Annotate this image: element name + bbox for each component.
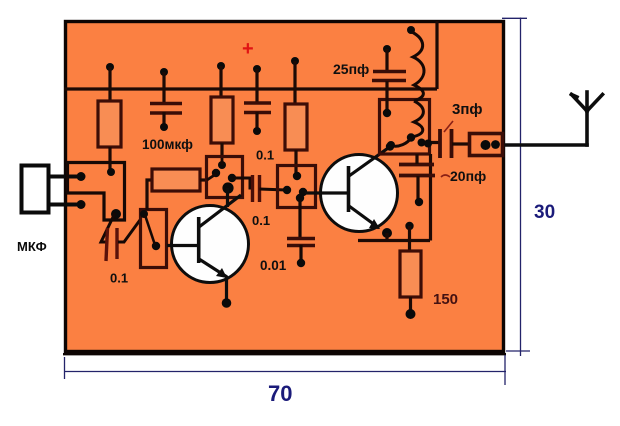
node dot below Q1 <box>222 298 232 308</box>
PCB board <box>66 22 504 352</box>
wire <box>255 112 258 130</box>
wire <box>408 226 411 251</box>
dimension line 70 (bottom) <box>64 355 506 385</box>
node dot B0 bottom <box>152 242 160 250</box>
Q2 collector lead <box>349 146 391 176</box>
capacitor C1 100mkf <box>150 104 182 114</box>
node B1 pad 2 <box>212 169 220 177</box>
wire <box>299 245 302 262</box>
node below C5 <box>383 109 391 117</box>
Q2 emitter lead <box>349 206 379 228</box>
box B0 <box>141 210 167 268</box>
node top of coil L1 <box>407 26 415 34</box>
antenna <box>503 92 603 145</box>
wire emitter node stub <box>385 233 388 240</box>
svg-text:0.01: 0.01 <box>260 258 287 273</box>
leader 20pf <box>441 175 450 177</box>
wire B1 to C3 <box>234 178 253 188</box>
node dot below C2 <box>253 127 261 135</box>
wire <box>409 297 412 312</box>
wire <box>108 67 111 100</box>
long vertical wire right <box>429 154 432 241</box>
inductor L2 winding <box>412 101 423 137</box>
wire Q1 collector node stub <box>226 188 229 207</box>
wire <box>385 49 388 71</box>
leader 3pf <box>444 121 453 132</box>
wire <box>293 61 296 104</box>
svg-text:0.1: 0.1 <box>110 271 128 286</box>
node Q2 emitter <box>382 228 392 238</box>
Q1 collector lead <box>199 195 241 227</box>
wire to mic cap <box>101 213 115 242</box>
mic box <box>22 166 49 213</box>
R4 left lead <box>147 180 151 210</box>
svg-text:100мкф: 100мкф <box>142 137 193 152</box>
node B1 pad 1 <box>218 161 226 169</box>
Q2 base bar <box>347 166 351 212</box>
wire top right vertical <box>435 21 438 89</box>
capacitor C0 0.1 mic <box>106 228 117 261</box>
Q1 base lead wire <box>167 244 199 247</box>
resistor R5 150 <box>400 251 421 297</box>
node dot above R2 <box>217 62 225 70</box>
wire C7 top stub <box>415 154 418 164</box>
node connector pad 2 <box>491 140 500 149</box>
svg-text:25пф: 25пф <box>333 61 369 77</box>
wire Q1 emitter down <box>225 276 228 301</box>
wire <box>385 81 388 112</box>
svg-text:30: 30 <box>534 202 555 223</box>
connector box (antenna pad) <box>470 134 503 156</box>
node B2 pad 3 <box>299 188 307 196</box>
wire L2 tail <box>393 138 411 146</box>
node dot above R3 <box>291 57 299 65</box>
svg-text:0.1: 0.1 <box>256 148 274 163</box>
wire C3 to B2 <box>260 189 287 190</box>
transistor Q1 body <box>172 206 249 283</box>
wire R3 to B2 <box>294 150 297 176</box>
svg-text:3пф: 3пф <box>452 101 483 118</box>
node Q2 collector <box>386 142 394 150</box>
box B2 <box>278 166 316 208</box>
wire <box>255 69 258 103</box>
node dot above C2 <box>253 65 261 73</box>
wire <box>108 147 111 171</box>
capacitor C3 0.1 coupling <box>253 175 260 202</box>
node junction a <box>418 139 426 147</box>
node dot B3 left <box>387 141 395 149</box>
capacitor C2 0.1 <box>244 103 271 113</box>
node dot B0 top <box>140 210 148 218</box>
node dot tangle <box>111 209 121 219</box>
node B1 pad 4 (Q1 collector node) <box>222 182 233 193</box>
wire B1 pad1 to R2 <box>221 158 224 165</box>
resistor R1 <box>98 101 121 147</box>
wire <box>162 112 165 126</box>
node connector pad 1 <box>481 140 491 150</box>
node above R5 <box>405 222 413 230</box>
wire C6 to connector <box>452 142 470 145</box>
wire <box>162 72 165 103</box>
wire from cap to box B0 <box>118 220 140 242</box>
board bottom border accent <box>63 353 506 355</box>
wire <box>220 143 223 158</box>
box B1 <box>207 157 243 198</box>
wire B2 to Q2 base <box>305 191 348 194</box>
wire to C6 3pf <box>418 141 439 144</box>
svg-text:150: 150 <box>433 291 458 308</box>
transistor Q2 body <box>321 155 398 232</box>
node dot below C1 <box>160 123 168 131</box>
Q1 emitter lead <box>199 259 227 277</box>
node dot above R1 <box>106 63 114 71</box>
dimension line 30 (right) <box>502 18 530 357</box>
resistor R3 <box>285 104 307 150</box>
resistor R4 horizontal <box>152 169 200 191</box>
mic wire 2 <box>50 203 80 207</box>
mic wire 1 <box>50 175 80 179</box>
node below R5 <box>406 309 416 319</box>
supply bus wire <box>64 87 437 90</box>
wire B2 down to C4 <box>298 200 301 238</box>
Q1 emitter arrowhead <box>216 268 227 278</box>
capacitor C5 25pf <box>372 72 406 81</box>
wire emitter bottom horizontal <box>358 239 430 242</box>
box B3 coil box <box>380 100 430 155</box>
node junction b <box>424 140 432 148</box>
svg-text:+: + <box>242 38 254 60</box>
Q2 emitter arrowhead <box>369 219 380 229</box>
Q1 base bar <box>197 217 201 263</box>
capacitor C4 0.01 <box>287 239 315 246</box>
node bottom of coil L2 <box>407 133 415 141</box>
diagonal inside B0 <box>145 215 155 245</box>
svg-text:70: 70 <box>268 381 292 406</box>
node below C7 <box>415 198 423 206</box>
svg-text:МКФ: МКФ <box>17 239 47 254</box>
inductor L1 winding <box>412 32 424 101</box>
R4 right lead <box>200 178 207 181</box>
node dot below R1 <box>107 168 115 176</box>
node B2 pad 1 <box>293 172 301 180</box>
node B2 pad 4 <box>296 194 304 202</box>
wire B1 pad2 to left edge <box>207 174 216 180</box>
svg-text:0.1: 0.1 <box>252 213 270 228</box>
node B1 pad 3 <box>228 174 236 182</box>
node B2 pad 2 <box>283 186 291 194</box>
resistor R2 <box>211 97 233 143</box>
node above C5 25pf <box>383 45 391 53</box>
node dot above C1 <box>160 68 168 76</box>
svg-text:20пф: 20пф <box>450 168 486 184</box>
node dot below C4 <box>297 259 305 267</box>
capacitor C7 20pf <box>399 165 435 176</box>
capacitor 3pf <box>440 129 452 158</box>
wire C7 bottom stub <box>416 176 419 199</box>
wire loop left tangle <box>68 163 125 221</box>
wire <box>219 66 222 97</box>
